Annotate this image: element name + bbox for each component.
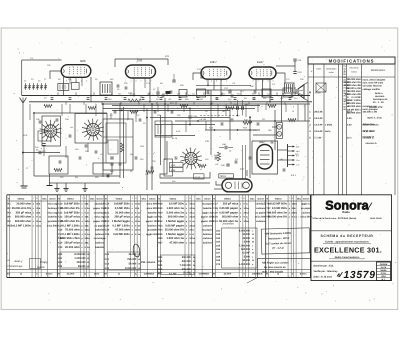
- svg-text:2w: 2w: [192, 224, 195, 227]
- wire stub v: [127, 110, 129, 120]
- svg-text:DATE: DATE: [381, 266, 387, 269]
- pin stub: [258, 92, 260, 95]
- note box 1: [261, 228, 310, 254]
- trimmer cap T5: [41, 83, 43, 90]
- wire bus y110.4: [112, 109, 230, 111]
- svg-text:2x0,1 MF 1.500v: 2x0,1 MF 1.500v: [11, 224, 32, 227]
- node: [249, 120, 251, 122]
- svg-text:C20: C20: [58, 246, 63, 249]
- svg-text:W: W: [193, 268, 195, 271]
- svg-text:W: W: [252, 233, 254, 236]
- svg-text:Annule 272: Annule 272: [369, 106, 383, 109]
- svg-text:R42: R42: [158, 264, 163, 267]
- svg-text:Valeur: Valeur: [169, 197, 176, 200]
- svg-text:nouv. valeur adoptee: nouv. valeur adoptee: [363, 79, 387, 82]
- node: [149, 101, 151, 103]
- svg-text:250 pF mica: 250 pF mica: [223, 203, 239, 206]
- pilot lamps: [276, 123, 282, 139]
- wire stub v: [29, 104, 31, 120]
- svg-text:3: 3: [86, 79, 87, 82]
- svg-text:usine: usine: [329, 71, 335, 74]
- svg-text:0,05 MF papier: 0,05 MF papier: [219, 211, 238, 214]
- svg-text:R20: R20: [95, 176, 98, 179]
- svg-text:agglo 1w: agglo 1w: [301, 203, 311, 206]
- cap component: [257, 122, 260, 124]
- cap component: [249, 156, 252, 158]
- wire stub v: [85, 104, 87, 113]
- svg-text:bakelite: bakelite: [95, 229, 105, 232]
- svg-text:1w: 1w: [138, 233, 141, 236]
- svg-text:2w: 2w: [87, 237, 90, 240]
- cap component: [56, 118, 59, 120]
- svg-text:W: W: [87, 261, 89, 264]
- svg-text:Genre: Genre: [303, 197, 310, 200]
- node: [189, 108, 191, 110]
- svg-text:carbone: carbone: [256, 207, 266, 210]
- coil box L1: [49, 156, 68, 174]
- cap component: [95, 150, 98, 152]
- svg-text:C29: C29: [124, 82, 127, 85]
- svg-text:W: W: [193, 264, 195, 267]
- svg-text:B.T.: B.T.: [382, 278, 386, 281]
- cap component: [235, 160, 238, 162]
- svg-text:0,1 MF 1.500v: 0,1 MF 1.500v: [62, 233, 80, 236]
- svg-text:0,02 MF 500v: 0,02 MF 500v: [270, 203, 287, 206]
- tube V2 6T8: [126, 59, 156, 79]
- svg-text:W: W: [138, 267, 140, 270]
- svg-text:Jean-y: Jean-y: [14, 259, 23, 263]
- resistor R67: [243, 121, 252, 124]
- svg-text:2x8 MF 550v: 2x8 MF 550v: [114, 203, 130, 206]
- svg-text:C33: C33: [177, 92, 180, 95]
- pin stub b: [193, 102, 195, 105]
- svg-text:divers: divers: [300, 273, 307, 276]
- resistor: [88, 106, 96, 109]
- cap component: [231, 94, 234, 96]
- svg-text:750.000: 750.000: [127, 258, 137, 261]
- svg-text:bakelite: bakelite: [148, 211, 158, 214]
- svg-text:agglo 1w: agglo 1w: [202, 211, 212, 214]
- wire stub v: [183, 104, 185, 112]
- svg-text:2w: 2w: [87, 207, 90, 210]
- svg-text:technique du: technique du: [373, 98, 388, 101]
- resistor: [288, 118, 296, 121]
- pin stub: [93, 92, 95, 95]
- svg-text:1w: 1w: [87, 229, 90, 232]
- svg-text:3: 3: [273, 79, 274, 82]
- svg-text:W: W: [193, 272, 195, 275]
- photocopy speckle: [6, 30, 396, 305]
- svg-text:50.000: 50.000: [242, 233, 250, 236]
- svg-text:20.000 ohm: 20.000 ohm: [115, 211, 130, 214]
- svg-text:7: 7: [141, 79, 142, 82]
- svg-text:JANV. 48-49: JANV. 48-49: [370, 217, 383, 220]
- svg-text:8.000.000: 8.000.000: [239, 229, 251, 232]
- pin stub b: [120, 102, 122, 105]
- label box above V6: [219, 174, 234, 178]
- svg-text:Adjonction: Adjonction: [363, 123, 376, 126]
- IF transformer M2: [100, 82, 112, 95]
- wire tube B loop: [115, 59, 168, 65]
- svg-text:C63: C63: [216, 237, 221, 240]
- cap tick x52: [51, 97, 54, 99]
- svg-text:R85: R85: [110, 170, 113, 173]
- cap tick x180: [179, 97, 182, 99]
- svg-text:R11: R11: [200, 98, 203, 101]
- svg-text:mica arg.: mica arg.: [94, 216, 105, 219]
- svg-text:8.000.000: 8.000.000: [74, 253, 86, 256]
- svg-text:C64: C64: [216, 241, 221, 244]
- IF can assembly: [103, 119, 133, 170]
- tubeA pin drops: [69, 77, 71, 84]
- svg-text:P64: P64: [140, 158, 143, 161]
- wire bus y104: [103, 103, 310, 105]
- svg-text:C25: C25: [105, 229, 110, 232]
- svg-text:250: 250: [296, 146, 299, 149]
- wire rail y176: [34, 175, 120, 177]
- svg-text:W: W: [87, 265, 89, 268]
- svg-text:mica 500v: mica 500v: [255, 216, 267, 219]
- cap component: [154, 110, 157, 112]
- wire stub v: [61, 104, 63, 116]
- cap component: [221, 122, 224, 124]
- svg-text:ajustable: ajustable: [47, 220, 58, 223]
- svg-text:2w: 2w: [192, 207, 195, 210]
- svg-text:mica 500v: mica 500v: [147, 203, 159, 206]
- svg-text:C5: C5: [38, 80, 40, 83]
- svg-text:L32: L32: [168, 98, 171, 101]
- svg-text:2x8 MF 550v: 2x8 MF 550v: [64, 203, 80, 206]
- svg-text:2.000: 2.000: [244, 241, 251, 244]
- svg-text:2x8 MF 550v: 2x8 MF 550v: [64, 211, 80, 214]
- cap tick x235: [234, 97, 237, 99]
- svg-text:300.000: 300.000: [182, 268, 192, 271]
- svg-text:3: 3: [66, 79, 67, 82]
- pin stub: [276, 92, 278, 95]
- tube V5 rectifier: [257, 141, 273, 169]
- wire v tubeB left: [133, 78, 135, 96]
- wire v x147: [146, 109, 148, 191]
- svg-text:Ancienne: Ancienne: [349, 67, 359, 70]
- wire grid cap V3: [193, 73, 201, 80]
- wire v tubeA left: [63, 77, 65, 96]
- svg-text:47.000 ohm: 47.000 ohm: [169, 242, 184, 245]
- wire stub v: [257, 104, 259, 112]
- wire stub v: [69, 104, 71, 113]
- svg-text:C46: C46: [147, 92, 150, 95]
- svg-text:C41: C41: [213, 220, 218, 223]
- svg-text:C80: C80: [300, 78, 303, 81]
- svg-text:41.25: 41.25: [172, 137, 178, 140]
- svg-text:6: 6: [76, 79, 77, 82]
- pin stub: [240, 92, 242, 95]
- svg-text:W: W: [87, 253, 89, 256]
- svg-text:L17: L17: [100, 153, 103, 156]
- svg-text:P90: P90: [177, 114, 180, 117]
- svg-text:1.500 ohm 1w: 1.500 ohm 1w: [167, 207, 185, 210]
- svg-text:1w: 1w: [87, 233, 90, 236]
- svg-text:R6: R6: [160, 82, 162, 85]
- svg-text:C47: C47: [30, 57, 33, 60]
- svg-text:12 s: 12 s: [347, 137, 352, 140]
- svg-text:7.000.000: 7.000.000: [239, 244, 251, 247]
- svg-text:P46: P46: [295, 153, 298, 156]
- svg-text:NB. Regler aux comites: NB. Regler aux comites: [262, 262, 289, 265]
- wire y90: [196, 89, 286, 91]
- svg-text:W: W: [193, 256, 195, 259]
- resistor: [268, 104, 276, 107]
- tube V3 E3F7: [201, 60, 231, 79]
- svg-text:C70: C70: [216, 263, 221, 266]
- svg-text:7: 7: [221, 79, 222, 82]
- cap component: [59, 160, 62, 162]
- cap C48: [226, 163, 229, 165]
- svg-text:1 Mohm agglo: 1 Mohm agglo: [166, 220, 184, 223]
- pin stub b: [65, 102, 67, 105]
- svg-text:25.000 ohm 5%: 25.000 ohm 5%: [60, 220, 80, 223]
- cap tick x272: [271, 97, 274, 99]
- ground at x85: [84, 183, 86, 189]
- wire rail y127 right: [272, 126, 276, 128]
- svg-text:MODIFICATIONS: MODIFICATIONS: [329, 58, 375, 63]
- svg-text:theorie: theorie: [37, 266, 45, 269]
- cap component: [114, 110, 117, 112]
- svg-text:500.000 ohm: 500.000 ohm: [15, 216, 32, 219]
- wire stub v: [225, 104, 227, 115]
- node: [146, 117, 148, 119]
- svg-text:W: W: [252, 252, 254, 255]
- svg-text:L3: L3: [292, 110, 294, 113]
- resistor: [146, 170, 154, 173]
- cap component: [175, 156, 178, 158]
- svg-text:2w: 2w: [192, 216, 195, 219]
- svg-text:C42: C42: [105, 263, 110, 266]
- svg-text:Δ: Δ: [20, 273, 22, 276]
- svg-text:8: 8: [136, 79, 137, 82]
- svg-text:R32: R32: [158, 220, 163, 223]
- svg-text:R43: R43: [158, 268, 163, 271]
- svg-text:25.000 ohm 5%: 25.000 ohm 5%: [12, 207, 32, 210]
- svg-text:2w: 2w: [87, 220, 90, 223]
- svg-text:300.000: 300.000: [182, 256, 192, 259]
- trimmer cap T6: [45, 83, 47, 90]
- svg-text:mod. - MAI installe: mod. - MAI installe: [262, 271, 284, 274]
- wire loop S2: [75, 114, 107, 144]
- cap C22 left: [38, 151, 40, 154]
- svg-text:2w: 2w: [138, 203, 141, 206]
- resistor R47: [217, 152, 220, 161]
- svg-text:agglo 1w: agglo 1w: [147, 216, 157, 219]
- svg-text:remonte le: remonte le: [363, 136, 375, 139]
- node: [133, 95, 135, 97]
- circled rows mark: [132, 244, 140, 258]
- cap component: [139, 118, 142, 120]
- svg-text:25.000: 25.000: [67, 273, 75, 276]
- svg-text:Notification: Notification: [326, 68, 337, 71]
- tube V6 output: [222, 179, 252, 192]
- svg-text:C26: C26: [105, 233, 110, 236]
- svg-text:P19: P19: [188, 94, 191, 97]
- svg-text:carbone: carbone: [203, 237, 213, 240]
- svg-text:47.000 ohm: 47.000 ohm: [115, 229, 130, 232]
- svg-text:R41: R41: [158, 260, 163, 263]
- drawing number 13579: [337, 272, 343, 277]
- svg-text:25.000: 25.000: [129, 253, 137, 256]
- cap component: [69, 134, 72, 136]
- svg-text:GAMMES: GAMMES: [144, 273, 155, 276]
- svg-text:5.000 ohm 2w: 5.000 ohm 2w: [167, 211, 185, 214]
- svg-text:bobinee: bobinee: [95, 242, 105, 245]
- dash coupling line: [200, 115, 240, 117]
- node: [151, 103, 153, 105]
- wire v x120: [119, 103, 121, 178]
- wire rect out: [278, 149, 288, 151]
- boxes mid right: [179, 90, 187, 98]
- svg-text:R32: R32: [237, 92, 240, 95]
- wire stub v: [157, 104, 159, 112]
- svg-text:1w: 1w: [138, 229, 141, 232]
- dark component x167: [166, 91, 171, 94]
- svg-text:C1: C1: [24, 80, 26, 83]
- cap C44: [224, 146, 226, 149]
- svg-text:C22: C22: [152, 160, 155, 163]
- svg-text:4: 4: [253, 79, 254, 82]
- stamp block: [377, 262, 391, 281]
- svg-text:P9: P9: [143, 122, 145, 125]
- svg-text:C17: C17: [267, 92, 270, 95]
- svg-text:L20: L20: [280, 97, 283, 100]
- cap tick x254: [253, 97, 256, 99]
- svg-text:1: 1: [131, 79, 132, 82]
- svg-text:W: W: [138, 258, 140, 261]
- cap component: [79, 156, 82, 158]
- svg-text:decision: decision: [375, 95, 385, 98]
- speaker LS: [296, 83, 311, 101]
- svg-text:1 Mohm agglo: 1 Mohm agglo: [166, 233, 184, 236]
- svg-text:0,5 MF 250v: 0,5 MF 250v: [169, 203, 185, 206]
- node: [262, 95, 264, 97]
- svg-text:0,1 MF 1.500v: 0,1 MF 1.500v: [62, 224, 80, 227]
- svg-text:R64: R64: [108, 98, 111, 101]
- svg-text:agglo 1/2w: agglo 1/2w: [146, 233, 158, 236]
- svg-text:300.000: 300.000: [76, 261, 86, 264]
- wire v x103: [102, 104, 104, 177]
- svg-text:0,5 MF 250v: 0,5 MF 250v: [272, 207, 288, 210]
- svg-text:C41: C41: [58, 257, 63, 260]
- svg-text:7.7.49: 7.7.49: [314, 137, 321, 140]
- svg-text:C3: C3: [31, 78, 33, 81]
- svg-text:divers: divers: [46, 273, 53, 276]
- trimmer cap T1: [25, 83, 27, 90]
- svg-text:W: W: [252, 237, 254, 240]
- pin stub: [221, 92, 223, 95]
- caps C31 C32: [237, 100, 239, 116]
- svg-text:s 2520: s 2520: [325, 124, 333, 127]
- wire stub v: [185, 121, 187, 132]
- node: [207, 84, 209, 86]
- wire loop S3: [160, 141, 210, 178]
- svg-text:(Tr - 4.2.1): (Tr - 4.2.1): [272, 247, 284, 250]
- svg-text:bobinee: bobinee: [95, 233, 105, 236]
- wire bus y108.5: [103, 108, 255, 110]
- node: [22, 152, 24, 154]
- pin stub b: [138, 102, 140, 105]
- svg-text:bakelite: bakelite: [95, 246, 105, 249]
- wire v x123.5: [123, 107, 125, 178]
- svg-text:C21: C21: [105, 211, 110, 214]
- cap component: [107, 174, 110, 176]
- svg-text:T47: T47: [266, 207, 271, 210]
- wire v tubeB right: [149, 78, 151, 102]
- svg-text:carbone: carbone: [302, 211, 312, 214]
- pin stub: [75, 92, 77, 95]
- svg-text:1w: 1w: [138, 211, 141, 214]
- svg-text:bakelite: bakelite: [203, 207, 213, 210]
- svg-text:P75: P75: [136, 114, 139, 117]
- svg-text:L91: L91: [280, 158, 283, 161]
- cap component: [119, 162, 122, 164]
- svg-text:8.000.000: 8.000.000: [125, 267, 137, 270]
- pin stub: [166, 92, 168, 95]
- svg-text:C39: C39: [213, 211, 218, 214]
- cap tick x290: [289, 97, 292, 99]
- svg-text:W: W: [252, 259, 254, 262]
- svg-text:mica arg.: mica arg.: [47, 203, 58, 206]
- svg-text:W: W: [193, 260, 195, 263]
- wire v x250: [249, 116, 251, 178]
- svg-text:valeur: valeur: [351, 71, 357, 74]
- svg-text:Date : le 16 aout: Date : le 16 aout: [314, 275, 333, 278]
- caps C40 C41: [276, 61, 295, 66]
- cap C17: [200, 75, 203, 77]
- svg-text:75.000 ohm: 75.000 ohm: [65, 229, 80, 232]
- node: [119, 110, 121, 112]
- svg-text:28.6.48: 28.6.48: [314, 111, 323, 114]
- svg-text:25.000 ohm 5%: 25.000 ohm 5%: [60, 207, 80, 210]
- svg-text:Modifications: Modifications: [371, 69, 386, 72]
- svg-text:ceramique: ceramique: [94, 237, 107, 240]
- svg-text:P7: P7: [153, 88, 155, 91]
- pin stub: [148, 92, 150, 95]
- svg-text:P22: P22: [263, 97, 266, 100]
- svg-text:100.000 o 1W: 100.000 o 1W: [363, 111, 378, 114]
- svg-text:chimique: chimique: [255, 203, 266, 206]
- wire v x34: [33, 113, 35, 176]
- svg-text:chassis G.: chassis G.: [366, 142, 378, 145]
- svg-text:Valeur: Valeur: [17, 197, 24, 200]
- svg-text:8 MF 550v chim: 8 MF 550v chim: [60, 237, 80, 240]
- svg-text:C10: C10: [58, 203, 63, 206]
- svg-text:C19: C19: [58, 242, 63, 245]
- svg-text:les plus recents du: les plus recents du: [264, 266, 286, 269]
- svg-text:C16: C16: [58, 229, 63, 232]
- svg-text:W: W: [138, 263, 140, 266]
- svg-text:Genre: Genre: [258, 197, 265, 200]
- ground at x66: [65, 183, 67, 189]
- pin stub: [130, 92, 132, 95]
- svg-text:cablage modifie: cablage modifie: [363, 88, 381, 91]
- svg-text:1 Mohm agglo: 1 Mohm agglo: [112, 220, 130, 223]
- cap component: [135, 156, 138, 158]
- svg-text:6,4F: 6,4F: [24, 134, 29, 137]
- box x155: [155, 121, 172, 137]
- svg-text:C98: C98: [65, 118, 68, 121]
- svg-text:Dessine par : E.B.: Dessine par : E.B.: [314, 264, 335, 267]
- svg-text:Genre: Genre: [49, 197, 56, 200]
- svg-text:R35: R35: [158, 233, 163, 236]
- svg-text:2w: 2w: [138, 224, 141, 227]
- svg-text:au papier: au papier: [202, 229, 213, 232]
